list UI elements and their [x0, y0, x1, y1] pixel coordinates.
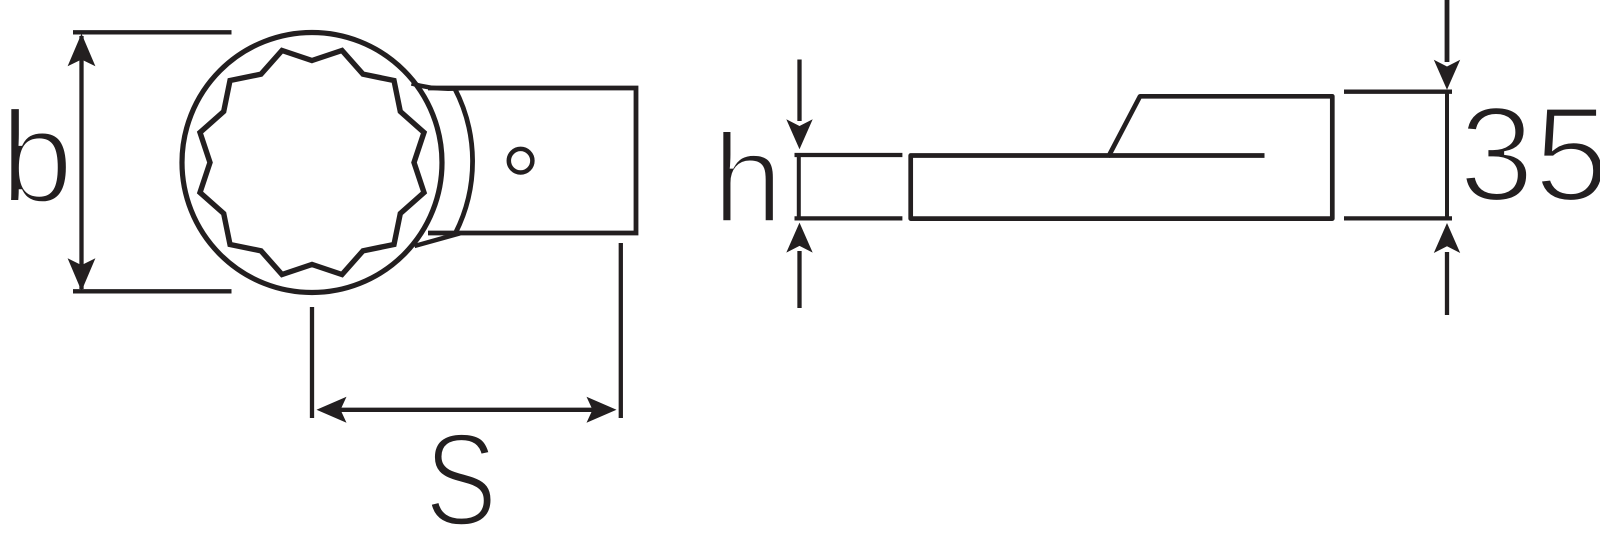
dimension 35: lower leader line: [1445, 252, 1449, 315]
dimension S: right arrowhead: [587, 397, 617, 423]
dimension h: upper leader line: [797, 60, 801, 122]
dimension S: left arrowhead: [317, 397, 347, 423]
svg-text:b: b: [1, 83, 74, 230]
dimension h: bottom extension tick: [795, 216, 903, 220]
side view bar outline: [911, 96, 1333, 218]
dimension h: top extension tick: [795, 153, 903, 157]
dimension b: top extension tick: [73, 30, 232, 34]
dimension S: left extension line: [310, 307, 314, 418]
neck fillet bottom: [415, 233, 461, 246]
dimension S: right extension line: [619, 243, 623, 418]
ring 12-point inner profile: [200, 51, 424, 275]
dimension h: connecting line: [797, 155, 801, 218]
dimension 35: bottom extension tick: [1344, 216, 1452, 220]
dimension b: dimension line: [79, 36, 83, 289]
svg-text:S: S: [425, 406, 497, 546]
dimension 35: upper leader line: [1445, 0, 1450, 62]
dimension 35: lower arrowhead: [1434, 223, 1460, 253]
dimension b: lower arrowhead: [68, 258, 96, 291]
dimension 35: top extension tick: [1344, 90, 1452, 94]
ring outer circle: [182, 33, 442, 293]
svg-text:35: 35: [1459, 79, 1600, 230]
svg-text:h: h: [713, 107, 784, 249]
dimension b: bottom extension tick: [73, 289, 232, 293]
dimension h: lower leader line: [797, 251, 801, 308]
side view top surface line: [1109, 153, 1265, 158]
dimension 35: upper arrowhead: [1434, 60, 1460, 90]
dimension b: upper arrowhead: [68, 34, 96, 67]
dimension h: lower arrowhead: [786, 223, 812, 253]
dimension S: dimension line: [330, 408, 605, 412]
dimension 35: connecting line: [1445, 92, 1449, 219]
ring boss arc: [455, 88, 473, 233]
shank outline: [428, 88, 636, 233]
neck fillet top: [412, 84, 461, 89]
dimension h: upper arrowhead: [786, 119, 812, 149]
shank pin hole: [509, 149, 533, 173]
